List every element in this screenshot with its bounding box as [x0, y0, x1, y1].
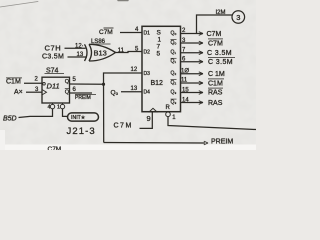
wire C7M to clock pin 9	[140, 112, 153, 128]
B12 internal label S175 vertical	[157, 30, 162, 58]
B12 clock triangle pin 9	[149, 108, 157, 112]
B12 pin 3 output wire	[181, 42, 204, 44]
arrow C7M	[199, 32, 203, 36]
svg-text:4: 4	[48, 105, 51, 111]
D input bubble mark	[43, 83, 46, 86]
svg-text:C7M: C7M	[99, 29, 113, 36]
wire D11 pin 1 to connector oval	[63, 109, 68, 117]
wire C1M to D11 pin 2	[24, 82, 42, 84]
svg-text:1: 1	[158, 37, 162, 44]
svg-text:Q₀: Q₀	[171, 40, 177, 46]
svg-text:Q₁: Q₁	[171, 59, 177, 65]
svg-text:INIT★: INIT★	[71, 115, 86, 121]
wire C7H to B13 pin 12	[65, 47, 86, 49]
paper background	[0, 0, 256, 150]
svg-text:14: 14	[182, 97, 189, 103]
svg-text:13: 13	[77, 52, 84, 58]
svg-text:B13: B13	[94, 49, 107, 58]
net C3.5Mbar label	[208, 58, 235, 66]
svg-text:S: S	[157, 30, 162, 37]
D11 clear bubble pin 1	[60, 104, 64, 108]
svg-text:1Ø: 1Ø	[181, 69, 189, 75]
flip-flop D11 box (74S74)	[42, 77, 70, 103]
svg-text:13: 13	[131, 86, 138, 92]
D11 preset pin stub	[52, 103, 54, 104]
D11 clock triangle	[42, 90, 47, 95]
arrow C3.5Mbar	[199, 60, 203, 64]
svg-text:Q: Q	[65, 79, 70, 85]
svg-text:9: 9	[147, 114, 151, 123]
svg-text:3: 3	[236, 13, 240, 22]
B12 pin 6 output wire	[181, 61, 204, 63]
B12 pin 10 output wire	[181, 73, 204, 75]
wire B5D to D11 pin 4	[19, 109, 53, 118]
svg-text:7: 7	[157, 44, 161, 51]
svg-text:R: R	[166, 105, 171, 111]
arrow C1M	[199, 72, 203, 76]
svg-text:C7M: C7M	[207, 31, 222, 38]
svg-text:C1M: C1M	[208, 80, 223, 87]
svg-text:Q₂: Q₂	[171, 80, 177, 86]
svg-text:D2: D2	[144, 50, 151, 56]
junction dot D11 Q node	[102, 83, 105, 86]
wire D11 pin 6 Qbar stub	[70, 92, 93, 94]
svg-text:B5D: B5D	[3, 116, 17, 123]
wire C7M to B12 pin 4	[120, 32, 142, 34]
B12 pin 7 output wire	[181, 52, 204, 54]
photocopy dash top-center	[118, 0, 128, 2]
svg-text:Q₃: Q₃	[171, 90, 177, 96]
IC B12 box (74S175)	[142, 26, 181, 111]
svg-text:C 3.5M: C 3.5M	[207, 50, 232, 57]
svg-text:C 3.5M: C 3.5M	[208, 59, 233, 66]
svg-text:PREIM: PREIM	[75, 95, 91, 101]
white page edge left sliver	[0, 130, 5, 150]
svg-text:Q₁: Q₁	[171, 50, 177, 56]
reset bubble pin 1	[166, 112, 171, 117]
wire B13 output to B12 pin 5	[116, 52, 143, 53]
net PREIMbar label	[75, 94, 96, 101]
svg-text:12·: 12·	[75, 43, 84, 49]
svg-text:C7M: C7M	[48, 146, 62, 150]
wire PREIM long line	[104, 142, 205, 145]
wire C3.5M to B13 pin 13	[68, 56, 88, 58]
D11 preset bubble pin 4	[50, 104, 54, 108]
part number LS86	[91, 39, 111, 45]
wire D11 Q to B12 pin 12 and down to PREIM	[104, 73, 143, 143]
wire to connector circle	[197, 15, 233, 34]
svg-text:C7M: C7M	[208, 40, 223, 47]
svg-text:C7M: C7M	[114, 123, 133, 130]
B12 pin 2 output wire	[181, 33, 204, 35]
B12 output Q3bar	[171, 99, 177, 105]
net RASbar label	[208, 88, 223, 96]
wire Q0 to B12 pin 13	[121, 91, 142, 93]
svg-text:C7H: C7H	[45, 44, 62, 53]
svg-text:Q₀: Q₀	[171, 31, 177, 37]
svg-text:D3: D3	[144, 71, 151, 77]
wire reset to right edge	[168, 117, 256, 130]
svg-text:C3.5M: C3.5M	[42, 53, 64, 60]
photocopy streak top-left	[0, 2, 38, 8]
arrow C3.5M	[199, 51, 203, 55]
off-page connector circle 3	[232, 11, 245, 24]
arrow C1Mbar	[199, 81, 203, 85]
svg-text:D11: D11	[47, 82, 60, 91]
svg-text:15: 15	[182, 87, 189, 93]
node C1Mbar label	[6, 78, 22, 86]
svg-text:11: 11	[181, 78, 188, 84]
svg-text:12: 12	[131, 67, 138, 73]
arrow PREIM	[204, 141, 208, 145]
arrow RAS	[199, 101, 203, 105]
B12 output Q0bar	[171, 40, 177, 46]
B12 pin 11 output wire	[181, 82, 204, 84]
svg-text:C1M: C1M	[6, 79, 21, 86]
wire D11 pin 5 Q output	[70, 83, 104, 85]
svg-text:RAS: RAS	[208, 90, 223, 97]
connector oval INIT stamp	[68, 113, 99, 121]
arrow RASbar	[199, 91, 203, 95]
svg-text:Q₀: Q₀	[111, 90, 119, 97]
svg-text:PREIM: PREIM	[211, 139, 233, 146]
wire Ax to D11 pin 3	[26, 91, 42, 93]
svg-text:1: 1	[57, 105, 60, 111]
B12 output Q2bar	[171, 80, 177, 86]
svg-text:Q₂: Q₂	[171, 71, 177, 77]
svg-text:A×: A×	[14, 89, 23, 96]
arrow C7Mbar	[199, 41, 203, 45]
white page edge bottom	[0, 145, 256, 151]
B12 pin 14 output wire	[181, 102, 204, 104]
XOR gate B13	[85, 44, 116, 61]
node C7M(bar) top label	[99, 28, 114, 36]
svg-text:C 1M: C 1M	[208, 71, 225, 78]
B12 pin 15 output wire	[181, 92, 204, 94]
part number S74	[45, 68, 65, 75]
B12 output Q1bar	[171, 58, 177, 64]
svg-text:RAS: RAS	[208, 100, 223, 107]
svg-text:Q: Q	[65, 89, 70, 95]
D11 Qbar label	[65, 89, 70, 96]
svg-text:D1: D1	[144, 31, 151, 37]
svg-text:B12: B12	[151, 80, 164, 87]
net C7Mbar label	[208, 39, 223, 47]
D11 clear pin stub	[62, 103, 64, 104]
svg-text:D4: D4	[144, 90, 151, 96]
svg-text:Q₃: Q₃	[171, 100, 177, 106]
svg-text:5: 5	[157, 51, 161, 58]
svg-text:J21-3: J21-3	[67, 126, 96, 137]
svg-text:I2M: I2M	[216, 10, 226, 16]
net C1Mbar label	[208, 79, 224, 87]
